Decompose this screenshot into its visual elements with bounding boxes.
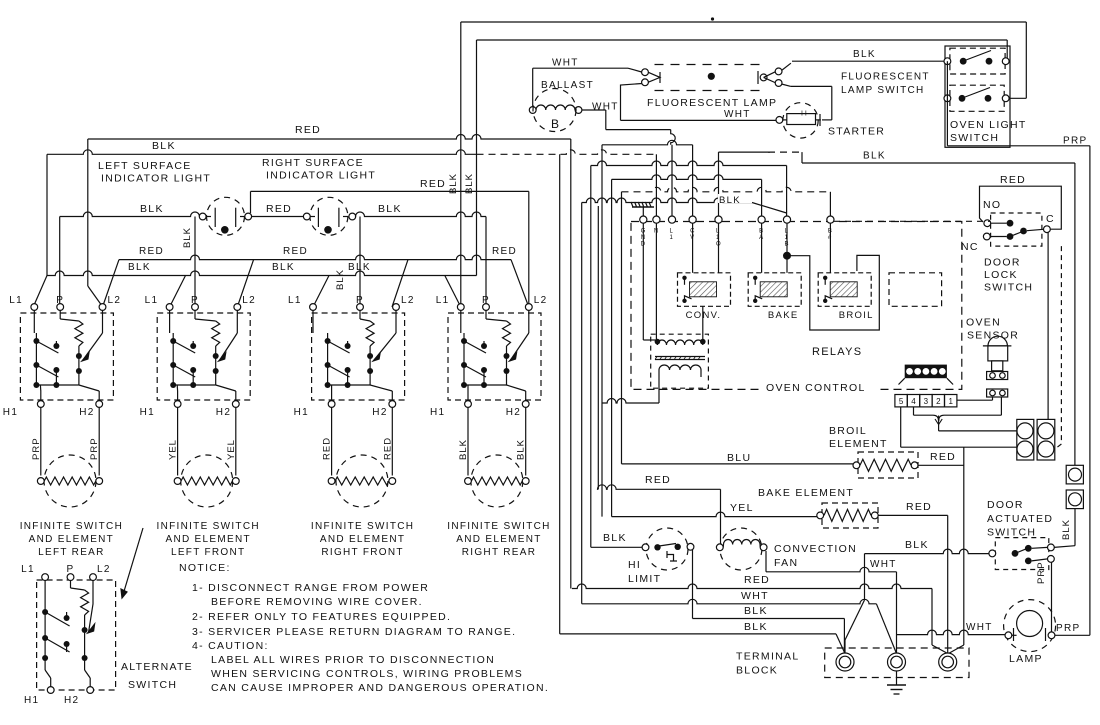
wire RED to fan xyxy=(598,485,721,490)
wire BLK to hi limit xyxy=(591,546,642,548)
broil element xyxy=(858,452,918,478)
label oven control xyxy=(763,381,878,393)
svg-text:RED: RED xyxy=(1000,174,1026,186)
arrow to alternate switch xyxy=(122,528,143,598)
svg-text:H2: H2 xyxy=(372,407,387,418)
alternate switch H terminals xyxy=(47,687,54,694)
svg-text:RIGHT REAR: RIGHT REAR xyxy=(462,547,537,558)
oven light switch xyxy=(950,85,1004,111)
svg-text:LAMP: LAMP xyxy=(1009,653,1043,665)
svg-text:P: P xyxy=(191,295,199,306)
svg-text:YEL: YEL xyxy=(168,439,179,460)
oven control box xyxy=(631,222,962,390)
svg-text:LEFT FRONT: LEFT FRONT xyxy=(171,547,245,558)
svg-text:BLOCK: BLOCK xyxy=(736,665,778,677)
svg-text:4: 4 xyxy=(911,397,916,406)
svg-text:PRP: PRP xyxy=(89,437,100,460)
svg-text:H2: H2 xyxy=(506,407,521,418)
wire PRP right edge vertical xyxy=(1089,146,1091,636)
svg-text:L1: L1 xyxy=(436,295,450,306)
terminal block xyxy=(825,648,969,678)
wire RED main xyxy=(88,135,571,140)
wire WHT ballast bottom xyxy=(582,109,606,111)
connector 5 4 3 2 1 xyxy=(895,395,907,407)
svg-text:H1: H1 xyxy=(3,407,18,418)
svg-text:SWITCH: SWITCH xyxy=(987,527,1036,539)
svg-text:WHT: WHT xyxy=(552,58,579,69)
svg-text:FAN: FAN xyxy=(774,557,798,569)
wire lamp box left and bottom WHT xyxy=(621,84,643,121)
svg-text:LEFT SURFACE: LEFT SURFACE xyxy=(98,160,192,172)
svg-text:NC: NC xyxy=(961,241,979,253)
svg-text:BLK: BLK xyxy=(853,49,876,60)
wire BLK lamp to fluorescent lamp switch xyxy=(792,60,944,62)
svg-text:H1: H1 xyxy=(24,695,39,706)
svg-text:BLK: BLK xyxy=(719,195,741,206)
svg-text:5: 5 xyxy=(899,397,904,406)
svg-text:RED: RED xyxy=(266,203,292,215)
oven control pins xyxy=(640,216,647,223)
svg-text:BLK: BLK xyxy=(744,605,768,617)
svg-text:RED: RED xyxy=(382,437,393,460)
wire conv relay to transformer xyxy=(702,306,704,341)
wire PRP to right edge xyxy=(947,145,1090,147)
wire from top rail 2 to fluorescent switch xyxy=(1006,40,1008,58)
wire bundle hi-limit BLK xyxy=(590,166,592,548)
wire dashed door lock to connector xyxy=(1060,246,1062,444)
svg-text:WHT: WHT xyxy=(966,622,993,633)
svg-text:BLK: BLK xyxy=(140,203,164,215)
wire pin5 to connector xyxy=(900,407,902,448)
element LEFT FRONT xyxy=(177,407,179,475)
wire rail diagonals box2 xyxy=(237,260,253,307)
wire YEL to bake element xyxy=(612,512,820,517)
svg-text:B: B xyxy=(551,117,560,131)
wire bundle WHT xyxy=(581,203,583,604)
svg-text:2- REFER ONLY TO FEATURES EQUI: 2- REFER ONLY TO FEATURES EQUIPPED. xyxy=(192,611,451,623)
svg-text:L1: L1 xyxy=(9,295,23,306)
infinite switch RIGHT FRONT xyxy=(312,313,405,400)
svg-text:PRP: PRP xyxy=(1063,136,1087,147)
svg-text:FLUORESCENT: FLUORESCENT xyxy=(841,72,930,83)
wire RED riser from indicator to L2 box4 line xyxy=(250,191,252,213)
svg-text:RELAYS: RELAYS xyxy=(812,346,862,358)
square connector BLK lower xyxy=(1066,490,1083,509)
wire PRP door switch to lamp xyxy=(1051,562,1053,632)
svg-text:ALTERNATE: ALTERNATE xyxy=(121,661,193,673)
hi limit xyxy=(646,528,688,570)
wire top BLK rail to oven light switch xyxy=(461,21,1027,23)
svg-text:ACTUATED: ACTUATED xyxy=(987,513,1053,525)
wire bundle BLK2 xyxy=(559,154,561,634)
svg-text:SWITCH: SWITCH xyxy=(128,679,177,691)
svg-text:WHT: WHT xyxy=(724,109,751,120)
svg-text:RED: RED xyxy=(906,501,932,513)
svg-text:BLK: BLK xyxy=(335,269,346,290)
svg-text:AND ELEMENT: AND ELEMENT xyxy=(165,534,250,545)
svg-text:INDICATOR LIGHT: INDICATOR LIGHT xyxy=(266,170,376,182)
svg-text:LAMP SWITCH: LAMP SWITCH xyxy=(841,85,925,96)
svg-text:BLK: BLK xyxy=(1061,519,1072,540)
square connector BLK upper xyxy=(1066,465,1083,484)
svg-text:TERMINAL: TERMINAL xyxy=(736,651,800,663)
wire RED broil xyxy=(918,464,964,466)
door actuated switch xyxy=(995,538,1049,570)
plug connector pair A xyxy=(1017,419,1034,460)
svg-text:BLK: BLK xyxy=(905,539,929,551)
ribbon connector xyxy=(905,365,947,379)
svg-text:RED: RED xyxy=(295,124,321,136)
svg-text:WHT: WHT xyxy=(870,559,897,570)
wire from top rail 1 to oven light switch xyxy=(1025,22,1027,98)
wire RED rail xyxy=(119,255,511,259)
svg-text:RIGHT SURFACE: RIGHT SURFACE xyxy=(262,157,364,169)
relay conv xyxy=(678,273,731,307)
svg-text:BAKE: BAKE xyxy=(768,310,799,321)
ground symbol at oven control xyxy=(642,207,644,216)
svg-text:1: 1 xyxy=(948,397,953,406)
svg-text:LEFT REAR: LEFT REAR xyxy=(38,547,105,558)
svg-text:BLU: BLU xyxy=(727,452,751,464)
svg-text:RED: RED xyxy=(744,574,770,586)
svg-text:NO: NO xyxy=(983,199,1001,211)
svg-text:BLK: BLK xyxy=(348,262,371,273)
svg-text:INFINITE SWITCH: INFINITE SWITCH xyxy=(311,521,414,532)
svg-text:INDICATOR LIGHT: INDICATOR LIGHT xyxy=(101,173,211,185)
transformer xyxy=(651,334,709,388)
element RIGHT REAR xyxy=(467,407,469,475)
wire WHT to lamp xyxy=(897,630,1006,635)
svg-text:I I: I I xyxy=(801,111,807,118)
svg-text:BLK: BLK xyxy=(152,140,176,152)
svg-text:RED: RED xyxy=(139,246,164,257)
wire transformer to BLU riser xyxy=(658,377,660,403)
wire bundle RED fan xyxy=(597,206,599,489)
svg-text:H2: H2 xyxy=(64,695,79,706)
wire vertical BLK pair left xyxy=(460,22,462,307)
svg-text:OVEN: OVEN xyxy=(966,317,1001,329)
oven sensor xyxy=(983,345,1012,347)
wire sensor to connector xyxy=(1000,397,1002,415)
svg-text:BLK: BLK xyxy=(272,262,295,273)
infinite switch LEFT REAR xyxy=(20,313,113,400)
mark xyxy=(711,17,714,20)
svg-text:BROIL: BROIL xyxy=(829,425,867,437)
svg-text:LIMIT: LIMIT xyxy=(628,573,661,585)
svg-text:WHT: WHT xyxy=(741,590,769,602)
svg-text:L1: L1 xyxy=(145,295,159,306)
wire BLK right to door switch xyxy=(1074,509,1076,546)
svg-text:L1: L1 xyxy=(21,564,35,575)
infinite switch RIGHT REAR xyxy=(448,313,541,400)
oven sensor mating connector xyxy=(987,389,1008,397)
svg-text:3: 3 xyxy=(924,397,929,406)
svg-text:PRP: PRP xyxy=(1056,623,1080,634)
svg-text:L2: L2 xyxy=(108,295,122,306)
wire rail diagonals box3 xyxy=(392,260,408,307)
svg-text:BLK: BLK xyxy=(863,151,886,162)
svg-text:2: 2 xyxy=(936,397,941,406)
wire RED long to terminal 3 xyxy=(572,584,932,588)
svg-text:AND ELEMENT: AND ELEMENT xyxy=(456,534,541,545)
svg-text:BAKE ELEMENT: BAKE ELEMENT xyxy=(758,487,854,499)
svg-text:P: P xyxy=(482,295,490,306)
left surface indicator light xyxy=(207,197,245,235)
svg-text:BLK: BLK xyxy=(128,262,151,273)
svg-text:BLK: BLK xyxy=(744,621,768,633)
svg-text:LABEL ALL WIRES PRIOR TO DISCO: LABEL ALL WIRES PRIOR TO DISCONNECTION xyxy=(211,654,495,666)
svg-text:AND ELEMENT: AND ELEMENT xyxy=(29,534,114,545)
svg-text:RED: RED xyxy=(420,178,446,190)
lamp xyxy=(1004,600,1056,652)
svg-text:SWITCH: SWITCH xyxy=(984,282,1033,294)
svg-text:PRP: PRP xyxy=(1036,561,1047,584)
svg-text:1- DISCONNECT RANGE FROM POWER: 1- DISCONNECT RANGE FROM POWER xyxy=(192,582,429,594)
wire RED loop door lock xyxy=(980,186,1062,229)
svg-text:L2: L2 xyxy=(534,295,548,306)
wire bundle WHT down xyxy=(601,145,603,517)
svg-text:YEL: YEL xyxy=(730,502,754,514)
alternate switch xyxy=(37,580,116,690)
wires pins to transformer xyxy=(642,223,644,340)
svg-text:P: P xyxy=(356,295,364,306)
svg-text:L2: L2 xyxy=(97,564,111,575)
wire BLK right edge vertical to connector xyxy=(1074,163,1076,465)
infinite switch LEFT FRONT xyxy=(157,313,250,400)
svg-text:C: C xyxy=(1046,213,1055,225)
svg-text:WHEN SERVICING CONTROLS, WIRIN: WHEN SERVICING CONTROLS, WIRING PROBLEMS xyxy=(211,668,523,680)
svg-text:L2: L2 xyxy=(401,295,415,306)
svg-text:HI: HI xyxy=(628,559,641,571)
wire BLK rail xyxy=(47,271,477,276)
svg-text:P: P xyxy=(56,295,64,306)
svg-text:BEFORE REMOVING WIRE COVER.: BEFORE REMOVING WIRE COVER. xyxy=(211,596,423,608)
svg-text:INFINITE SWITCH: INFINITE SWITCH xyxy=(447,521,550,532)
svg-text:OVEN LIGHT: OVEN LIGHT xyxy=(950,119,1027,131)
svg-text:BALLAST: BALLAST xyxy=(541,80,594,91)
wire rail diagonals box1 xyxy=(103,260,120,307)
fluorescent lamp xyxy=(655,64,767,66)
svg-text:H1: H1 xyxy=(140,407,155,418)
svg-text:RED: RED xyxy=(492,246,517,257)
svg-text:NOTICE:: NOTICE: xyxy=(179,562,231,574)
svg-text:STARTER: STARTER xyxy=(828,126,885,138)
svg-text:CONVECTION: CONVECTION xyxy=(774,543,857,555)
svg-text:H1: H1 xyxy=(430,407,445,418)
wire BLK main xyxy=(47,150,477,155)
ballast B xyxy=(532,68,534,110)
wire RED main left drop xyxy=(87,139,89,286)
svg-text:BLK: BLK xyxy=(182,227,193,248)
wire P risers xyxy=(194,217,196,308)
svg-text:RED: RED xyxy=(283,246,308,257)
right surface indicator light xyxy=(310,197,348,235)
wire bundle BLU xyxy=(621,192,623,464)
ground at terminal block xyxy=(896,671,898,685)
svg-text:RED: RED xyxy=(322,437,333,460)
svg-text:AND ELEMENT: AND ELEMENT xyxy=(320,534,405,545)
svg-text:3- SERVICER PLEASE RETURN DIAG: 3- SERVICER PLEASE RETURN DIAGRAM TO RAN… xyxy=(192,626,516,638)
svg-text:LOCK: LOCK xyxy=(984,269,1018,281)
svg-text:PRP: PRP xyxy=(31,437,42,460)
svg-text:BLK: BLK xyxy=(516,439,527,460)
wire BLK to left indicator xyxy=(60,212,200,217)
svg-text:H1: H1 xyxy=(294,407,309,418)
wire RED bake xyxy=(878,514,948,516)
wire starter right to lamp right xyxy=(831,86,833,120)
svg-text:L1: L1 xyxy=(288,295,302,306)
wire pin4 to connector xyxy=(913,407,915,416)
wire bundle RED xyxy=(570,139,572,589)
svg-text:L2: L2 xyxy=(242,295,256,306)
relay feed verticals xyxy=(692,223,694,273)
relay spare box xyxy=(889,273,942,307)
svg-text:YEL: YEL xyxy=(226,439,237,460)
svg-text:RED: RED xyxy=(930,451,956,463)
wire BLK right of indicator 2 xyxy=(356,212,487,217)
svg-text:4- CAUTION:: 4- CAUTION: xyxy=(192,640,269,652)
svg-text:DOOR: DOOR xyxy=(984,257,1021,269)
wire RED between indicators xyxy=(252,216,304,218)
svg-text:INFINITE SWITCH: INFINITE SWITCH xyxy=(20,521,123,532)
svg-text:SWITCH: SWITCH xyxy=(950,132,999,144)
svg-text:SENSOR: SENSOR xyxy=(967,330,1019,342)
svg-text:BLK: BLK xyxy=(378,203,402,215)
svg-text:OVEN CONTROL: OVEN CONTROL xyxy=(766,382,866,394)
svg-text:CONV.: CONV. xyxy=(686,310,722,321)
wire pin1 to oven sensor xyxy=(957,399,993,401)
relay broil xyxy=(818,273,871,307)
element RIGHT FRONT xyxy=(331,407,333,475)
convection fan xyxy=(720,528,762,570)
svg-text:P: P xyxy=(67,564,75,575)
fluorescent lamp switch xyxy=(950,48,1005,74)
wire switch common vertical xyxy=(946,61,948,146)
svg-text:RIGHT FRONT: RIGHT FRONT xyxy=(321,547,403,558)
svg-text:H2: H2 xyxy=(79,407,94,418)
wire WHT mid to terminal 2 xyxy=(582,599,877,604)
svg-text:RED: RED xyxy=(645,474,671,486)
svg-text:DOOR: DOOR xyxy=(987,499,1024,511)
bake element xyxy=(822,503,878,528)
wire fan to WHT xyxy=(765,551,767,572)
starter xyxy=(776,117,783,124)
svg-text:BLK: BLK xyxy=(603,532,627,544)
svg-text:BLK: BLK xyxy=(458,439,469,460)
wire WHT fan to terminal 2 xyxy=(766,567,897,572)
oven light switch box solid xyxy=(945,46,1010,147)
svg-text:H2: H2 xyxy=(216,407,231,418)
wire BLK main left drop xyxy=(46,154,48,275)
wire door lock C to connector xyxy=(1047,232,1049,420)
wire second BLK rail to fluorescent lamp switch xyxy=(477,39,1008,41)
wire WHT ballast top xyxy=(533,67,628,69)
svg-text:CAN CAUSE IMPROPER AND DANGERO: CAN CAUSE IMPROPER AND DANGEROUS OPERATI… xyxy=(211,682,549,694)
element LEFT REAR xyxy=(40,407,42,475)
wire BLK hi limit to terminal 1 xyxy=(692,550,694,619)
wire bundle YEL xyxy=(611,179,613,516)
door lock switch xyxy=(991,213,1042,246)
bus lines into pins xyxy=(602,140,693,144)
relay bake xyxy=(748,273,801,307)
wire BLU to broil element xyxy=(622,463,854,465)
wire BLK jog to right edge xyxy=(719,151,771,153)
svg-text:BROIL: BROIL xyxy=(839,310,874,321)
wire door lock dashed to oven control xyxy=(834,220,991,222)
svg-text:FLUORESCENT LAMP: FLUORESCENT LAMP xyxy=(647,97,777,109)
wire BLK door switch xyxy=(865,549,990,554)
svg-text:ELEMENT: ELEMENT xyxy=(829,438,888,450)
svg-text:INFINITE SWITCH: INFINITE SWITCH xyxy=(157,521,260,532)
wire rail diagonals box4 xyxy=(511,260,529,307)
wire BLK2 to terminal 1 xyxy=(560,633,836,635)
